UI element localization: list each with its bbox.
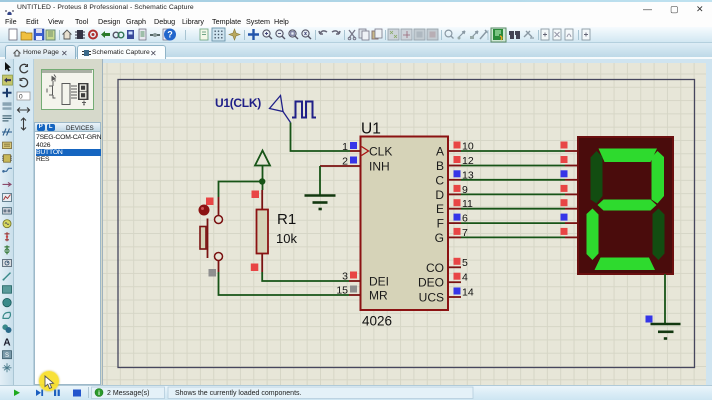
svg-text:A: A [3, 338, 10, 349]
segment d (lit) [595, 258, 656, 271]
svg-text:7: 7 [462, 227, 468, 239]
pin 3 number [342, 271, 348, 283]
svg-text:3: 3 [342, 271, 348, 283]
button bottom state square (gray) [209, 269, 217, 277]
pin 15 state square (gray) [350, 286, 357, 293]
svg-text:?: ? [167, 30, 173, 40]
state squares A-G at IC side [454, 142, 461, 235]
pin 3 DEI stub [349, 280, 361, 282]
wire segment D (pin 9 to display) [461, 193, 565, 195]
title bar [0, 2, 712, 15]
R1 bottom state square (red) [251, 264, 258, 272]
pin 5 CO stub [448, 266, 461, 268]
editor area with schematic [103, 59, 706, 385]
svg-text:6: 6 [462, 213, 468, 225]
R1 bottom pin [261, 254, 263, 273]
pin 1 number [342, 141, 348, 153]
toolbar [0, 27, 712, 43]
menu bar [0, 15, 712, 27]
svg-text:10: 10 [462, 141, 474, 153]
wire segment C (pin 13 to display) [461, 179, 565, 181]
button terminal bottom [215, 253, 223, 261]
display ground state square (blue) [646, 316, 653, 323]
wire R1 to DEI [262, 272, 349, 281]
svg-text:2 Message(s): 2 Message(s) [107, 390, 149, 397]
pin 15 number [336, 285, 348, 297]
tab bar [0, 43, 712, 59]
pin 4 DEO stub [448, 281, 461, 283]
wire button to MR [219, 272, 350, 295]
window top strip [0, 0, 712, 2]
wire segment A (pin 10 to display) [461, 150, 565, 152]
wire junction to button branch [219, 182, 263, 198]
svg-text:10k: 10k [276, 231, 297, 246]
power arrow (VCC) [255, 151, 270, 166]
clock probe symbol [270, 96, 291, 123]
segment a (lit) [599, 149, 658, 163]
segment e (lit) [587, 209, 599, 261]
junction node [259, 178, 265, 184]
mouse cursor highlight [39, 371, 59, 391]
svg-text:14: 14 [462, 287, 474, 299]
svg-text:D: D [435, 188, 444, 202]
pin 14 UCS stub [448, 296, 461, 298]
svg-text:G: G [435, 231, 444, 245]
segment b (lit) [652, 151, 665, 204]
svg-text:E: E [436, 202, 444, 216]
pin stubs A-G at display side [565, 151, 578, 237]
wire INH to ground [319, 166, 321, 195]
svg-text:2: 2 [342, 156, 348, 168]
svg-text:12: 12 [462, 155, 474, 167]
svg-text:5: 5 [462, 257, 468, 269]
pin 4 number and square [454, 272, 469, 284]
clock probe label U1(CLK) [215, 96, 261, 110]
pin 2 state square (blue) [350, 157, 357, 164]
svg-text:CO: CO [426, 261, 444, 275]
wire segment B (pin 12 to display) [461, 165, 565, 167]
svg-text:i: i [98, 390, 100, 397]
state squares A-G at display side [561, 142, 568, 235]
pin numbers 10,12,13,9,11,6,7 [462, 141, 474, 239]
U1 right pin names A-G CO DEO UCS [418, 145, 444, 305]
button bottom pin [218, 261, 220, 272]
wire arrow to junction [262, 166, 264, 191]
svg-text:A: A [436, 145, 444, 159]
button actuator bar [207, 219, 209, 259]
svg-text:Shows the currently loaded com: Shows the currently loaded components. [175, 390, 302, 397]
button state square (red) [206, 198, 214, 206]
button top pin [218, 197, 220, 215]
U1 left pin names CLK INH DEI MR [369, 145, 392, 303]
svg-text:C: C [435, 173, 444, 187]
svg-text:B: B [436, 159, 444, 173]
pin 5 number and square [454, 257, 469, 269]
button terminal top [215, 216, 223, 224]
svg-text:U1: U1 [361, 121, 381, 138]
svg-text:DEO: DEO [418, 276, 444, 290]
svg-text:15: 15 [336, 285, 348, 297]
left panel [34, 59, 103, 385]
svg-text:11: 11 [462, 198, 473, 210]
svg-text:S: S [5, 353, 9, 359]
button body rect [200, 227, 206, 250]
pin 1 state square (blue) [350, 142, 357, 149]
svg-text:DEI: DEI [369, 275, 389, 289]
R1 value 10k [276, 231, 297, 246]
R1 top pin [261, 190, 263, 210]
svg-text:9: 9 [462, 184, 468, 196]
pin 1 CLK stub [350, 150, 361, 152]
svg-text:R1: R1 [277, 211, 296, 228]
svg-text:4: 4 [462, 272, 468, 284]
ground under display [651, 324, 681, 339]
svg-text:13: 13 [462, 169, 474, 181]
wire segment F (pin 6 to display) [461, 222, 565, 224]
svg-text:MR: MR [369, 289, 388, 303]
left tool columns [0, 59, 14, 385]
resistor R1 body [257, 210, 269, 254]
clock waveform glyph [292, 102, 316, 118]
U1 value 4026 [362, 314, 392, 329]
segment g (lit) [598, 200, 657, 211]
svg-text:0: 0 [19, 94, 23, 101]
status bar [0, 385, 712, 400]
svg-text:1: 1 [342, 141, 348, 153]
R1 label [277, 211, 296, 228]
display ground wire [664, 274, 666, 324]
button actuator knob [199, 205, 210, 216]
svg-text:CLK: CLK [369, 145, 392, 159]
pin 15 MR stub [349, 294, 361, 296]
svg-text:F: F [437, 217, 444, 231]
svg-text:INH: INH [369, 160, 390, 174]
pin 14 number and square [454, 287, 474, 299]
U1 reference label [361, 121, 381, 138]
pin 3 state square (red) [350, 272, 357, 279]
clock input arrow on CLK pin [362, 147, 369, 156]
wire probe to CLK pin [291, 123, 351, 152]
segment c (unlit) [653, 209, 665, 261]
pin stubs A-G at IC side (pins 10,12,13,9,11,6,7) [448, 151, 461, 237]
wire segment E (pin 11 to display) [461, 208, 565, 210]
segment f (unlit) [591, 151, 603, 204]
sheet border [118, 80, 695, 368]
IC U1 (4026 decade counter) body [361, 137, 449, 311]
svg-text:U1(CLK): U1(CLK) [215, 96, 261, 110]
pin 2 INH stub wire [320, 165, 361, 167]
pin 2 number [342, 156, 348, 168]
wire segment G (pin 7 to display) [461, 236, 565, 238]
svg-text:UCS: UCS [419, 291, 444, 305]
ground near INH [305, 196, 336, 210]
7-segment display (7SEG-COM-CAT-GRN) body [578, 137, 673, 274]
R1 top state square (red) [252, 191, 260, 199]
svg-text:4026: 4026 [362, 314, 392, 329]
